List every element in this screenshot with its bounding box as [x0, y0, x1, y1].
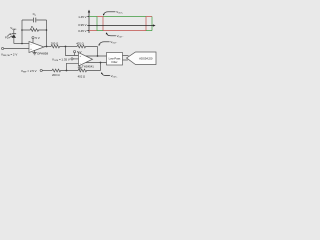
- junction input node: [21, 43, 23, 45]
- wire Vocm to FDA: [73, 58, 78, 60]
- supply terminal 5V (TIA): [32, 37, 34, 39]
- resistor 402 ohm feedback top: [77, 45, 98, 48]
- svg-text:402 Ω: 402 Ω: [76, 42, 84, 46]
- svg-text:200 Ω: 200 Ω: [52, 73, 60, 77]
- junction feedback right at output: [46, 46, 48, 48]
- terminal Vref: [40, 69, 42, 71]
- svg-text:ADS54J20: ADS54J20: [139, 56, 153, 60]
- junction FDA top input node: [65, 46, 67, 48]
- waveform plot: [78, 10, 155, 79]
- wire Vref,TIA to noninverting input: [4, 48, 29, 50]
- label Vocm = 1.35 V: [52, 57, 70, 62]
- svg-text:0.95 V: 0.95 V: [78, 23, 86, 27]
- low-pass filter box: [107, 53, 123, 66]
- wire input node to op-amp inverting input: [14, 43, 29, 45]
- ground (FDA): [78, 65, 82, 69]
- terminal Vref,TIA: [1, 47, 3, 49]
- junction FDA bottom input node: [66, 70, 68, 72]
- wire feedback right leg: [46, 20, 48, 47]
- svg-text:OPA858: OPA858: [37, 51, 48, 55]
- FDA polarity marks: [80, 55, 82, 66]
- label Vref = 2.5 V: [21, 69, 37, 74]
- FDA U2 triangle: [79, 53, 93, 67]
- wire LPF to ADC bottom: [123, 59, 128, 61]
- light arrows into PD: [8, 33, 13, 38]
- svg-text:PD: PD: [5, 36, 9, 40]
- photodiode PD: [12, 33, 17, 35]
- terminal Vocm: [71, 58, 73, 60]
- label 200 ohm bottom: [52, 73, 60, 77]
- label PD: [5, 36, 9, 40]
- wire Vbias to PD: [13, 30, 15, 34]
- label 402 ohm top: [76, 42, 84, 46]
- junction feedback right at RF row: [46, 29, 48, 31]
- svg-text:5 V: 5 V: [77, 50, 82, 54]
- op-amp input polarity marks: [30, 43, 32, 51]
- svg-text:1.45 V: 1.45 V: [78, 15, 86, 19]
- axis Vocm center line with arrow: [89, 25, 153, 27]
- wire FDA top output: [86, 55, 107, 57]
- svg-text:5 V: 5 V: [35, 36, 40, 40]
- supply terminal 5V (FDA): [74, 51, 76, 53]
- wire feedback bottom rise to out: [100, 63, 102, 71]
- label CF: [33, 12, 37, 17]
- trace Vout+ green: [89, 17, 152, 31]
- label OPA858: [37, 51, 48, 55]
- resistor RF: [22, 29, 47, 32]
- wire FDA bottom output: [86, 62, 107, 64]
- label THS4541: [82, 64, 94, 68]
- axis ticks: [87, 17, 89, 31]
- waveform y-axis: [88, 12, 90, 33]
- junction bottom output: [100, 62, 102, 64]
- label RF: [31, 25, 35, 30]
- label 402 ohm bottom: [78, 74, 86, 78]
- ADC ADS54J20 pentagon: [127, 52, 157, 65]
- wire TIA output: [44, 46, 51, 48]
- trace Vout- red: [89, 17, 152, 31]
- wire node jog to FDA +IN: [66, 47, 79, 56]
- svg-text:THS4541: THS4541: [82, 64, 94, 68]
- wire node jog to FDA -IN: [67, 63, 79, 70]
- resistor 200 ohm series bottom: [52, 69, 67, 72]
- svg-text:0.45 V: 0.45 V: [78, 29, 86, 33]
- svg-text:402 Ω: 402 Ω: [78, 74, 86, 78]
- resistor 402 ohm feedback bottom: [78, 69, 101, 72]
- capacitor CF: [33, 18, 35, 23]
- junction feedback left at RF row: [21, 29, 23, 31]
- junction top output: [97, 55, 99, 57]
- resistor 200 ohm series top: [51, 45, 66, 48]
- node Vbias label: [10, 26, 17, 31]
- wire node to 402 top: [66, 46, 78, 48]
- svg-text:Low-Pass: Low-Pass: [109, 57, 121, 61]
- svg-text:Filter: Filter: [112, 60, 118, 64]
- wire node to 402 bottom: [67, 70, 79, 72]
- wire feedback left leg: [21, 20, 23, 44]
- wire feedback top drop to out: [97, 47, 99, 57]
- label Vref,TIA = 2 V: [1, 53, 17, 58]
- wire LPF to ADC top: [123, 55, 129, 57]
- op-amp U1 TIA triangle: [29, 42, 44, 53]
- label 200 ohm top: [51, 42, 59, 46]
- svg-text:200 Ω: 200 Ω: [51, 42, 59, 46]
- background: [0, 0, 160, 90]
- wire CF row: [22, 19, 47, 21]
- wire Vref to 200 bottom: [42, 70, 52, 72]
- ground (TIA): [33, 50, 37, 55]
